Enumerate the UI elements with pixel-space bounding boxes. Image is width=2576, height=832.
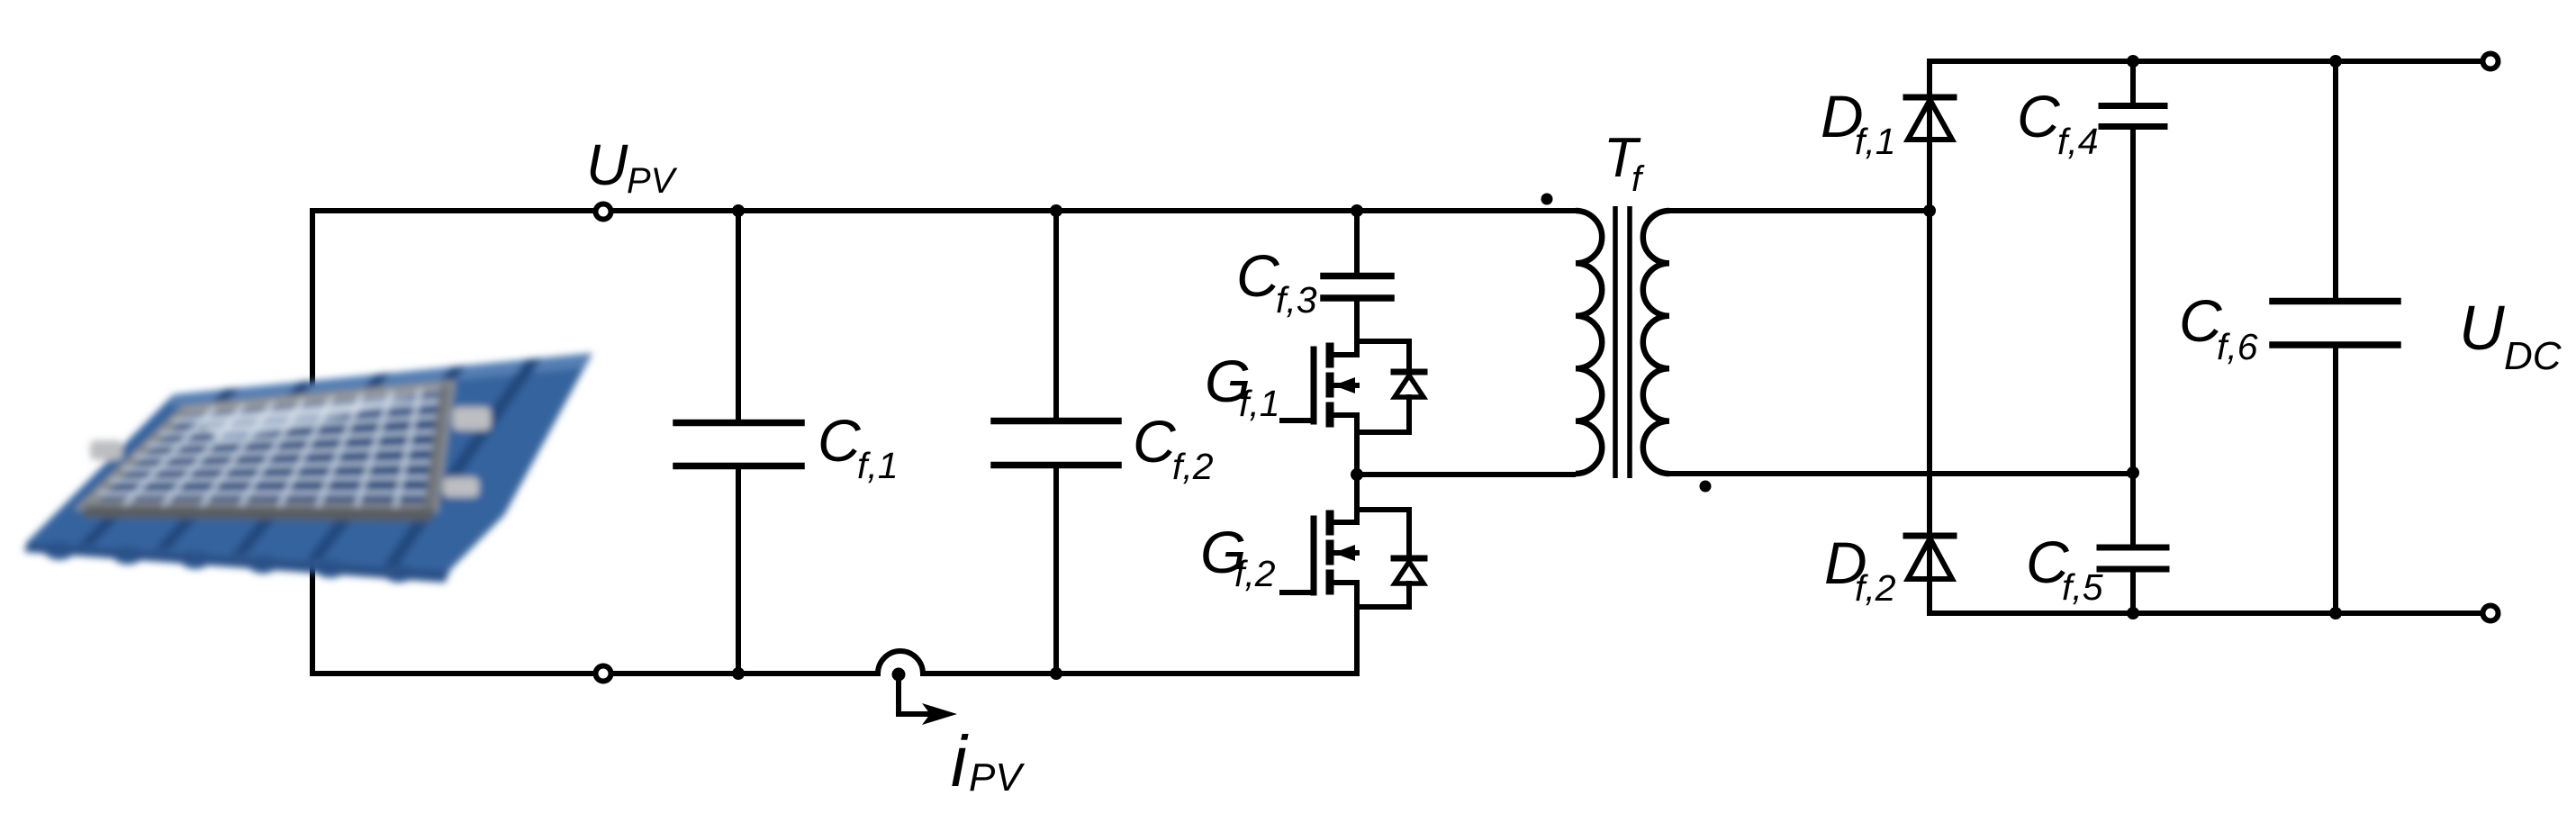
transistor G_f,2 gate stub	[1333, 550, 1357, 556]
svg-text:PV: PV	[969, 755, 1025, 800]
svg-text:f: f	[1631, 159, 1645, 199]
terminal U_PV positive	[596, 204, 611, 220]
transistor G_f,1 source to midpoint	[1354, 415, 1360, 475]
transistor G_f,2 gate lead	[1282, 590, 1314, 595]
current probe i_PV arrow stem	[899, 675, 933, 714]
roof ridge highlight top edge	[170, 353, 592, 407]
PV module right frame edge shade	[424, 385, 450, 508]
current probe i_PV hop arc	[878, 651, 923, 674]
svg-text:f,5: f,5	[2062, 566, 2103, 608]
capacitor C_f,1 top lead	[736, 211, 741, 420]
wire midpoint to transformer primary bottom	[1357, 472, 1576, 477]
svg-text:i: i	[951, 721, 969, 801]
svg-text:DC: DC	[2504, 334, 2562, 378]
svg-text:C: C	[2017, 83, 2061, 149]
svg-text:f,1: f,1	[1239, 383, 1280, 424]
capacitor C_f,2 top lead	[1053, 211, 1059, 418]
transistor G_f,2 body diode cathode bar	[1394, 556, 1424, 562]
svg-text:f,3: f,3	[1276, 279, 1317, 321]
capacitor C_f,3 top lead	[1354, 211, 1360, 273]
svg-text:f,1: f,1	[1855, 121, 1896, 162]
wire secondary top to rectifier	[1669, 208, 1930, 213]
transformer secondary polarity dot	[1700, 481, 1712, 493]
capacitor C_f,2 bottom lead	[1053, 468, 1059, 674]
PV module on roof (photovoltaic panel illustration)	[24, 353, 592, 583]
roof seam stripe 4	[306, 366, 466, 560]
transistor G_f,1 gate stub	[1333, 383, 1357, 388]
mounting foot right upper	[453, 407, 491, 430]
terminal U_DC positive	[2483, 54, 2499, 69]
diode D_f,1 cathode bar	[1906, 95, 1954, 101]
transformer T_f secondary winding	[1643, 211, 1669, 474]
node junction half-bridge midpoint	[1351, 468, 1363, 481]
node junction C_f,2 top	[1050, 204, 1062, 217]
transformer T_f core lines	[1613, 206, 1618, 478]
terminal U_DC negative	[2483, 606, 2499, 621]
diode D_f,2 triangle	[1908, 538, 1952, 579]
PV module frame	[86, 385, 450, 508]
svg-text:f,4: f,4	[2057, 121, 2099, 162]
svg-text:U: U	[586, 132, 628, 197]
capacitor C_f,4 leads	[2130, 61, 2136, 103]
svg-text:f,2: f,2	[1855, 567, 1896, 609]
transistor G_f,2 gate bar	[1311, 519, 1317, 592]
wire left rail (PV panel connections)	[310, 211, 315, 674]
transistor G_f,1 body diode triangle	[1395, 375, 1424, 397]
mounting foot right lower	[443, 477, 479, 497]
current probe i_PV node dot	[892, 668, 906, 682]
svg-text:C: C	[818, 407, 862, 474]
node junction C_f,6 bottom	[2329, 607, 2342, 619]
transistor G_f,1 channel segments	[1326, 347, 1334, 364]
node junction C_f,2 bottom	[1050, 667, 1062, 680]
node junction C_f,1 top	[732, 204, 745, 217]
transistor G_f,2 drain stub	[1332, 520, 1357, 525]
transistor G_f,2 body diode triangle	[1395, 562, 1424, 583]
capacitor C_f,3 bottom lead (drain of G_f,1)	[1354, 301, 1360, 355]
svg-text:f,1: f,1	[857, 445, 899, 486]
svg-text:C: C	[1236, 242, 1280, 309]
transistor G_f,1 gate lead	[1282, 418, 1314, 423]
node junction C_f,6 top	[2329, 55, 2342, 68]
diode D_f,2 cathode bar	[1906, 533, 1954, 539]
transistor G_f,1 body diode branch	[1357, 341, 1409, 372]
transformer primary polarity dot	[1541, 194, 1553, 205]
roof corrugation bumps along cut bottom edge	[44, 540, 75, 560]
transistor G_f,1 drain stub	[1332, 352, 1357, 357]
capacitor C_f,6 leads	[2333, 61, 2338, 298]
PV module bottom frame edge	[83, 505, 434, 521]
wire bottom rail primary, right of i_PV hop	[923, 671, 1357, 676]
svg-text:PV: PV	[627, 161, 678, 201]
svg-text:C: C	[1133, 408, 1177, 475]
terminal PV negative	[596, 666, 611, 682]
mounting foot bottom middle	[339, 481, 371, 501]
node junction C_f,4 / C_f,5 midpoint	[2127, 466, 2139, 479]
wire top rail primary (U_PV node)	[312, 208, 1576, 213]
capacitor C_f,3 plates	[1324, 273, 1391, 280]
roof seam stripe 3	[230, 373, 391, 556]
node junction half-bridge top	[1351, 204, 1363, 217]
transistor G_f,2 channel segments	[1326, 514, 1334, 531]
transistor G_f,1 source stub	[1332, 412, 1357, 418]
wire secondary bottom to capacitor midpoint	[1669, 471, 2132, 476]
roof sheet	[27, 353, 592, 570]
svg-text:f,2: f,2	[1172, 446, 1214, 487]
roof seam stripe 1	[77, 388, 240, 546]
svg-text:U: U	[2459, 293, 2505, 363]
node junction C_f,1 bottom	[732, 667, 745, 680]
diode D_f,1 triangle	[1908, 100, 1952, 140]
roof seam stripe 2	[154, 381, 315, 550]
transistor G_f,1 body diode cathode bar	[1394, 369, 1424, 375]
roof seam stripe 5	[383, 358, 542, 565]
capacitor C_f,1 bottom lead	[736, 469, 741, 674]
PV module sheen highlight	[198, 393, 423, 443]
transistor G_f,2 source stub	[1332, 580, 1357, 585]
svg-text:f,2: f,2	[1234, 553, 1276, 594]
wire bottom rail primary, left of i_PV hop	[312, 671, 878, 676]
capacitor C_f,5 plates	[2100, 545, 2166, 551]
roof bottom cut edge	[24, 542, 450, 583]
node junction C_f,4 top	[2127, 55, 2139, 68]
capacitor C_f,2 plates	[994, 418, 1118, 425]
wire top rail secondary	[1930, 59, 2490, 64]
node junction rectifier midpoint	[1923, 204, 1936, 217]
PV module cell grid	[98, 388, 448, 508]
mounting foot left	[90, 440, 122, 460]
capacitor C_f,6 plates	[2273, 298, 2398, 305]
transistor G_f,2 source to bottom rail	[1354, 583, 1360, 674]
node junction C_f,5 bottom	[2127, 607, 2139, 619]
wire bottom rail secondary	[1930, 610, 2490, 616]
transistor G_f,2 body diode branch	[1357, 510, 1409, 558]
capacitor C_f,4 plates	[2101, 103, 2165, 109]
transistor G_f,2 gate arrow	[1333, 545, 1355, 561]
capacitor C_f,5 leads	[2130, 472, 2136, 544]
transformer T_f primary winding	[1576, 211, 1602, 474]
svg-text:f,6: f,6	[2217, 326, 2258, 367]
current probe i_PV arrowhead	[922, 703, 957, 725]
transistor G_f,2 drain lead from midpoint	[1354, 475, 1360, 522]
transistor G_f,1 gate bar	[1311, 349, 1317, 421]
capacitor C_f,1 plates	[676, 420, 801, 427]
wire diode leg	[1927, 61, 1932, 613]
transistor G_f,1 gate arrow	[1333, 377, 1355, 393]
